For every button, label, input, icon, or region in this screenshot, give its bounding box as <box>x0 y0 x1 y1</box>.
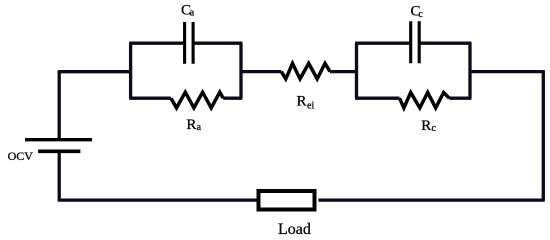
svg-text:R: R <box>186 117 196 133</box>
svg-text:a: a <box>197 122 202 133</box>
svg-text:c: c <box>432 123 437 134</box>
svg-text:OCV: OCV <box>8 149 34 163</box>
svg-text:c: c <box>418 9 423 20</box>
svg-text:a: a <box>190 8 195 19</box>
svg-text:R: R <box>421 118 431 134</box>
svg-text:Load: Load <box>278 221 311 238</box>
svg-text:ei: ei <box>307 100 314 111</box>
svg-text:R: R <box>297 94 307 110</box>
